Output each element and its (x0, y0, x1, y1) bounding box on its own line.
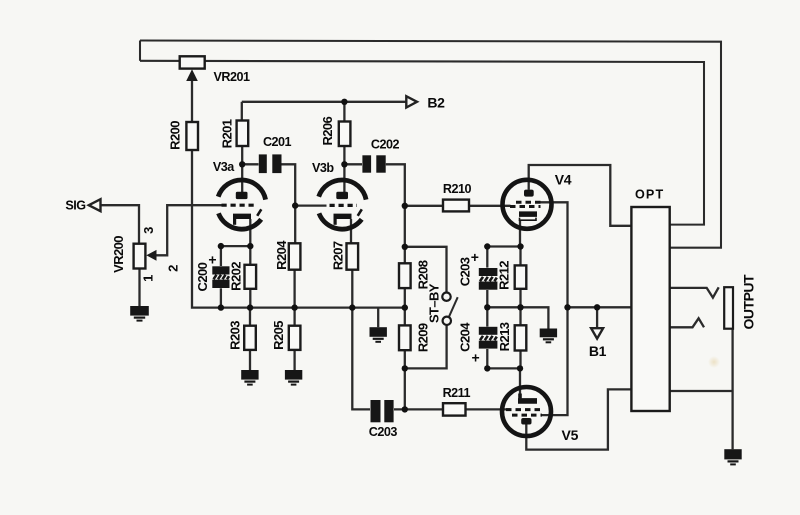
svg-text:R207: R207 (331, 241, 346, 270)
svg-text:OUTPUT: OUTPUT (740, 274, 756, 330)
svg-text:V3b: V3b (312, 161, 334, 175)
svg-text:VR200: VR200 (111, 236, 126, 273)
svg-text:V4: V4 (555, 171, 572, 187)
svg-text:ST–BY: ST–BY (427, 283, 442, 323)
svg-text:R204: R204 (274, 240, 289, 270)
svg-text:R203: R203 (228, 321, 243, 350)
svg-text:R210: R210 (443, 182, 472, 196)
svg-text:+: + (472, 350, 480, 366)
svg-text:1: 1 (141, 275, 156, 282)
svg-text:VR201: VR201 (213, 70, 250, 84)
svg-text:R209: R209 (416, 323, 431, 352)
svg-text:C201: C201 (263, 135, 292, 149)
svg-text:2: 2 (165, 265, 180, 272)
svg-text:R205: R205 (271, 321, 286, 350)
svg-text:C200: C200 (195, 262, 210, 291)
svg-text:C202: C202 (371, 138, 400, 152)
svg-text:C204: C204 (457, 322, 472, 352)
svg-text:3: 3 (141, 227, 156, 234)
svg-text:R201: R201 (220, 119, 235, 148)
svg-text:R212: R212 (497, 261, 512, 290)
svg-text:R213: R213 (497, 322, 512, 351)
svg-text:R211: R211 (443, 386, 471, 400)
svg-text:C203: C203 (457, 257, 472, 286)
svg-text:B1: B1 (589, 343, 607, 359)
svg-text:OPT: OPT (635, 188, 665, 202)
svg-text:SIG: SIG (65, 198, 86, 212)
svg-text:R200: R200 (168, 121, 183, 150)
svg-text:R206: R206 (320, 116, 335, 145)
svg-text:V5: V5 (562, 427, 579, 443)
svg-text:B2: B2 (427, 95, 445, 111)
svg-text:V3a: V3a (213, 160, 235, 174)
svg-text:R202: R202 (229, 262, 244, 291)
svg-text:C203: C203 (369, 425, 398, 439)
